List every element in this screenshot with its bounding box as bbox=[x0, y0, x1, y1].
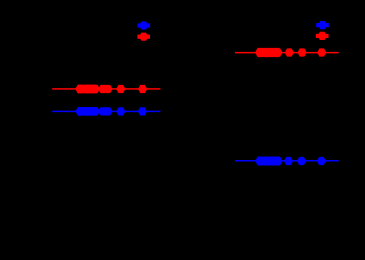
left panel red errorbar series bbox=[52, 85, 160, 94]
errorbar line bbox=[235, 52, 339, 54]
cluster markers bbox=[256, 48, 265, 56]
outlier markers bbox=[98, 85, 107, 93]
right panel red errorbar series bbox=[235, 48, 339, 57]
right legend blue marker bbox=[316, 21, 329, 29]
left legend red marker bbox=[137, 33, 150, 41]
left legend blue marker bbox=[138, 21, 151, 29]
left panel blue errorbar series bbox=[52, 107, 160, 116]
cluster markers bbox=[257, 157, 266, 165]
right panel blue errorbar series bbox=[235, 156, 339, 165]
cluster markers bbox=[76, 85, 85, 93]
right legend red marker bbox=[316, 32, 329, 40]
errorbar line bbox=[52, 111, 160, 113]
errorbar line bbox=[235, 160, 339, 162]
errorbar line bbox=[52, 88, 160, 90]
outlier markers bbox=[98, 107, 107, 115]
outlier markers bbox=[285, 48, 294, 56]
outlier markers bbox=[284, 157, 293, 165]
cluster markers bbox=[76, 107, 85, 115]
